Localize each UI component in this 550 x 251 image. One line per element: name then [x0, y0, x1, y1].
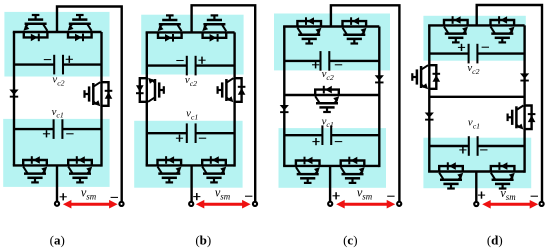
- svg-text:vc2: vc2: [467, 62, 479, 76]
- svg-text:vc1: vc1: [186, 108, 198, 122]
- IGBT bottom-right d: [491, 162, 515, 188]
- minus output d: [531, 195, 538, 197]
- IGBT top-right a: [68, 15, 92, 41]
- terminal plus d: [474, 202, 478, 206]
- IGBT middle left b: [136, 78, 164, 102]
- wire top bus a: [13, 31, 102, 33]
- wire inner right rail d: [523, 25, 525, 172]
- IGBT bottom-left a: [23, 156, 47, 182]
- svg-text:vsm: vsm: [215, 186, 231, 202]
- wire inner right rail c: [378, 27, 380, 168]
- capacitor C1 c: [284, 125, 379, 145]
- diode inner rail c: [375, 75, 384, 83]
- wire top bus b: [146, 31, 235, 33]
- minus sign C1 a: [66, 133, 73, 135]
- plus sign C2 d: [458, 44, 465, 51]
- IGBT lower right d: [508, 106, 536, 130]
- IGBT bottom-left c: [296, 157, 320, 183]
- capacitor C2 d: [429, 44, 524, 64]
- wire output junction c: [329, 166, 331, 204]
- svg-text:vsm: vsm: [81, 186, 97, 202]
- minus sign C1 d: [480, 149, 487, 151]
- cyan highlight box a1 (top cell): [4, 12, 109, 77]
- IGBT top-left b: [158, 15, 182, 41]
- terminal plus a: [55, 202, 59, 206]
- terminal minus c: [397, 202, 401, 206]
- wire inner right rail b: [233, 32, 235, 166]
- minus sign C2 a: [44, 59, 51, 61]
- plus sign C2 a: [66, 56, 73, 63]
- plus sign C1 a: [43, 130, 50, 137]
- capacitor C2 c: [284, 51, 379, 71]
- plus output b: [193, 193, 200, 200]
- svg-text:vc1: vc1: [52, 106, 64, 120]
- wire output junction d: [475, 172, 477, 205]
- wire top bus d: [428, 24, 524, 26]
- diode left rail a: [9, 90, 18, 98]
- vsm arrow b: [196, 200, 251, 209]
- terminal plus c: [328, 202, 332, 206]
- minus sign C1 b: [199, 137, 206, 139]
- svg-text:vc1: vc1: [468, 117, 480, 131]
- wire top bus c: [283, 25, 379, 27]
- cyan highlight box b1 (top cell): [141, 15, 243, 75]
- plus sign C1 c: [312, 138, 319, 145]
- wire bottom bus a: [13, 164, 102, 166]
- IGBT top-left a: [23, 15, 47, 41]
- minus output b: [245, 195, 252, 197]
- plus sign C2 c: [312, 61, 319, 68]
- svg-text:(b): (b): [195, 232, 211, 247]
- cyan highlight box d1 (top cell): [423, 16, 525, 61]
- cyan highlight box d2 (bottom cell): [423, 138, 531, 189]
- IGBT middle right b: [218, 78, 246, 102]
- svg-text:vc2: vc2: [185, 74, 197, 88]
- IGBT bottom-right a: [68, 156, 92, 182]
- diode left rail c: [280, 105, 289, 113]
- vsm arrow d: [482, 200, 538, 209]
- IGBT top-right b: [202, 15, 226, 41]
- wire jog over top b: [192, 5, 256, 204]
- vsm arrow a: [63, 200, 118, 209]
- terminal minus b: [253, 202, 257, 206]
- IGBT bottom-left b: [158, 156, 182, 182]
- diode upper right d: [520, 73, 529, 81]
- IGBT upper left d: [412, 65, 440, 89]
- IGBT top-left c: [297, 17, 321, 43]
- svg-text:vsm: vsm: [500, 186, 516, 202]
- cyan highlight box c2 (bottom cell): [279, 128, 387, 188]
- wire jog over top d: [477, 5, 542, 204]
- svg-text:vsm: vsm: [357, 186, 373, 202]
- wire bottom bus b: [146, 164, 235, 166]
- capacitor C2 b: [147, 56, 235, 76]
- terminal minus d: [540, 202, 544, 206]
- IGBT bottom-left d: [439, 162, 463, 188]
- wire jog over top c: [331, 5, 400, 204]
- wire left rail d: [428, 25, 430, 171]
- IGBT top-left d: [444, 16, 468, 42]
- IGBT top-right c: [343, 17, 367, 43]
- plus sign C2 b: [198, 57, 205, 64]
- IGBT middle right a: [85, 82, 113, 106]
- wire output junction a: [56, 165, 58, 203]
- wire left rail c: [283, 27, 285, 166]
- minus sign C2 b: [176, 60, 183, 62]
- svg-text:(c): (c): [343, 232, 357, 247]
- plus sign C1 b: [176, 135, 183, 142]
- terminal plus b: [189, 202, 193, 206]
- wire output junction b: [190, 165, 192, 204]
- capacitor C1 a: [14, 119, 102, 139]
- plus output c: [333, 192, 340, 199]
- diode lower left d: [425, 113, 434, 121]
- minus output a: [111, 196, 118, 198]
- wire middle bus c: [284, 94, 379, 96]
- plus output d: [478, 192, 485, 199]
- IGBT top-right d: [491, 16, 515, 42]
- cyan highlight box c1 (top cell): [274, 14, 390, 71]
- IGBT bottom-right b: [202, 156, 226, 182]
- wire left rail a: [13, 32, 15, 165]
- minus sign C2 d: [482, 46, 489, 48]
- wire middle bus d: [429, 96, 524, 98]
- wire bottom bus d: [428, 170, 524, 172]
- terminal minus a: [119, 202, 123, 206]
- minus sign C1 c: [335, 141, 342, 143]
- wire inner right rail a: [100, 32, 102, 167]
- plus sign C1 d: [459, 146, 466, 153]
- wire bottom bus c: [283, 165, 379, 167]
- IGBT bottom-right c: [341, 157, 365, 183]
- svg-text:(d): (d): [487, 233, 503, 248]
- capacitor C1 d: [429, 136, 524, 156]
- wire left rail b: [146, 32, 148, 165]
- IGBT middle c: [315, 86, 339, 112]
- svg-text:(a): (a): [50, 232, 65, 247]
- capacitor C1 b: [147, 123, 235, 143]
- minus output c: [387, 195, 394, 197]
- cyan highlight box a2 (bottom cell): [3, 119, 109, 187]
- wire jog over top a: [57, 7, 122, 204]
- cyan highlight box b2 (bottom cell): [134, 121, 242, 188]
- capacitor C2 a: [14, 55, 102, 75]
- plus output a: [60, 193, 67, 200]
- vsm arrow c: [336, 200, 395, 209]
- minus sign C2 c: [335, 64, 342, 66]
